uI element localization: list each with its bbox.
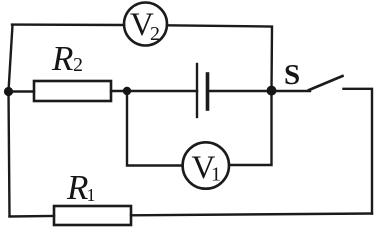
svg-text:2: 2	[150, 23, 160, 45]
svg-text:R: R	[66, 168, 88, 207]
svg-text:1: 1	[87, 185, 96, 205]
svg-text:1: 1	[211, 164, 221, 186]
svg-text:S: S	[284, 59, 300, 91]
svg-text:2: 2	[73, 54, 83, 76]
svg-text:R: R	[51, 39, 73, 78]
